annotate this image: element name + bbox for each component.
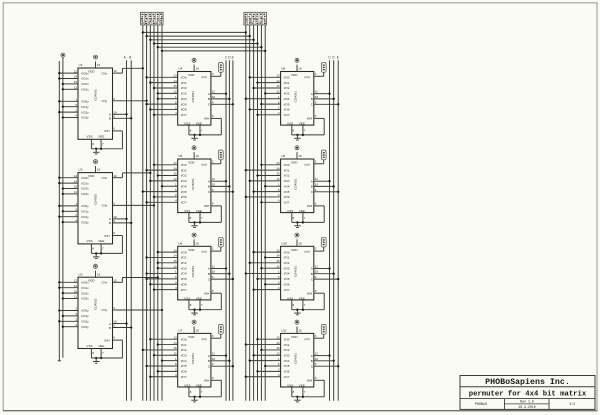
- wire — U4 pin 5 input: [145, 100, 177, 105]
- IC U9 (CD4051): [281, 154, 314, 213]
- svg-text:I/O5: I/O5: [284, 190, 290, 194]
- svg-text:6: 6: [315, 202, 317, 206]
- svg-text:CD4051: CD4051: [294, 91, 298, 103]
- svg-text:I/O7: I/O7: [284, 201, 290, 205]
- power symbol VDD U3: [93, 264, 97, 277]
- wire — U10 pin 7 VEE stub: [302, 300, 306, 311]
- svg-text:11: 11: [315, 177, 318, 181]
- svg-text:12: 12: [74, 174, 78, 178]
- svg-text:11: 11: [212, 177, 215, 181]
- connector CN-U7 output header: [218, 324, 223, 334]
- svg-text:PHOBoSapiens Inc.: PHOBoSapiens Inc.: [485, 377, 570, 387]
- svg-text:I/O1x: I/O1x: [81, 181, 89, 185]
- wire — U11 pin 2 input: [256, 368, 280, 373]
- wire — U2 pin 10 select A: [113, 215, 128, 220]
- svg-text:10: 10: [212, 270, 216, 274]
- wire — U1 pin 7 VEE stub: [100, 139, 104, 150]
- wire — U10 pin 9 select: [314, 275, 340, 280]
- svg-text:14: 14: [173, 341, 177, 345]
- IC U11 (CD4051): [281, 329, 314, 388]
- wire — U1 pin 12 input: [58, 69, 78, 74]
- wire — U9 pin 12 input: [249, 177, 281, 182]
- power symbol VDD U2: [93, 160, 97, 173]
- wire — U1 pin 10 select A: [113, 110, 128, 115]
- svg-text:I/O7: I/O7: [284, 375, 290, 379]
- svg-text:VEE: VEE: [98, 239, 104, 243]
- svg-text:I/O2y: I/O2y: [81, 215, 89, 219]
- svg-text:I/O0: I/O0: [284, 163, 290, 167]
- wire — select net E vertical (middle): [232, 60, 234, 400]
- wire — U8 pin 6 INH loop: [292, 114, 324, 135]
- svg-text:16: 16: [298, 241, 302, 245]
- svg-text:I/O6: I/O6: [284, 108, 290, 112]
- svg-text:I/O4: I/O4: [181, 97, 187, 101]
- svg-text:7: 7: [102, 142, 104, 146]
- svg-text:I/O0: I/O0: [284, 337, 290, 341]
- svg-text:3: 3: [113, 97, 115, 101]
- wire — U9 pin 9 select: [314, 188, 340, 193]
- svg-text:I/O0x: I/O0x: [81, 281, 89, 285]
- wire — U9 pin 7 VEE stub: [302, 213, 306, 224]
- title text — revision: [520, 400, 533, 404]
- svg-text:I/O3: I/O3: [284, 353, 290, 357]
- svg-text:CD4051: CD4051: [191, 353, 195, 365]
- power symbol VDD U9: [295, 146, 299, 159]
- wire — U2 pin 14 input: [58, 179, 78, 184]
- svg-text:9: 9: [212, 188, 214, 192]
- svg-text:3: 3: [315, 72, 317, 76]
- svg-text:I/O2y: I/O2y: [81, 320, 89, 324]
- svg-text:16: 16: [298, 67, 302, 71]
- wire — U6 pin 10 select: [211, 270, 231, 275]
- wire — U10 pin 3 output: [314, 247, 324, 251]
- title text — company: [485, 377, 570, 387]
- svg-text:12: 12: [276, 90, 280, 94]
- connector CN-U5 output header: [218, 150, 223, 160]
- wire — U8 pin 2 input: [249, 106, 281, 111]
- svg-text:I/O1: I/O1: [181, 343, 187, 347]
- svg-text:12: 12: [74, 279, 78, 283]
- svg-text:I/O4: I/O4: [181, 272, 187, 276]
- svg-text:I/O5: I/O5: [181, 190, 187, 194]
- svg-text:VSS: VSS: [184, 209, 190, 213]
- svg-text:9: 9: [315, 362, 317, 366]
- svg-text:VEE: VEE: [299, 209, 305, 213]
- wire — U2 pin 6 INH loop: [91, 231, 122, 253]
- wire — U8 pin 4 input: [256, 111, 280, 116]
- wire — U2 pin 15 input: [62, 185, 78, 190]
- svg-text:B: B: [109, 326, 111, 330]
- wire — U2 pin 3 output: [113, 202, 156, 207]
- svg-text:6: 6: [113, 231, 115, 235]
- svg-text:I/O4: I/O4: [284, 184, 290, 188]
- svg-text:3: 3: [212, 247, 214, 251]
- svg-text:8: 8: [293, 390, 295, 394]
- IC U7 (CD4051): [178, 329, 211, 388]
- svg-text:I/O0y: I/O0y: [81, 309, 89, 313]
- svg-text:U2: U2: [79, 168, 83, 172]
- svg-text:3: 3: [315, 159, 317, 163]
- svg-text:I/O7: I/O7: [181, 375, 187, 379]
- svg-text:1/1: 1/1: [569, 402, 575, 407]
- wire — U6 pin 6 INH loop: [189, 289, 221, 310]
- svg-text:16: 16: [97, 63, 101, 67]
- wire — U7 pin 12 input: [153, 351, 178, 356]
- svg-text:B: B: [109, 221, 111, 225]
- svg-text:7: 7: [201, 303, 203, 307]
- wire — U11 pin 11 select: [314, 352, 331, 357]
- IC U3 (CD4052): [78, 272, 113, 348]
- wire — U6 pin 13 input: [157, 248, 178, 253]
- svg-text:VDD: VDD: [88, 69, 95, 73]
- svg-text:I/O1x: I/O1x: [81, 77, 89, 81]
- svg-text:I/O7: I/O7: [181, 288, 187, 292]
- svg-text:(o/i): (o/i): [202, 162, 207, 166]
- svg-text:(o/i): (o/i): [202, 337, 207, 341]
- wire — U3 pin 7 VEE stub: [100, 349, 104, 360]
- svg-text:U7: U7: [178, 329, 182, 333]
- svg-text:9: 9: [113, 114, 115, 118]
- wire — U2 pin 11 input: [62, 190, 78, 195]
- svg-text:12: 12: [276, 264, 280, 268]
- svg-text:I/O5: I/O5: [181, 364, 187, 368]
- svg-text:VSS: VSS: [86, 135, 92, 139]
- svg-text:I/O7: I/O7: [181, 201, 187, 205]
- wire — U9 pin 13 input: [260, 161, 280, 166]
- svg-text:I/O3: I/O3: [181, 179, 187, 183]
- node C D E — select labels (right): [328, 56, 339, 60]
- svg-text:11: 11: [212, 265, 215, 269]
- power symbol VDD U1: [93, 55, 97, 68]
- wire — U2 pin 1 input: [58, 202, 78, 207]
- svg-text:16: 16: [195, 329, 199, 333]
- wire — U10 pin 11 select: [314, 265, 331, 270]
- svg-text:14: 14: [74, 179, 78, 183]
- svg-text:8: 8: [92, 351, 94, 355]
- svg-text:B: B: [129, 56, 131, 60]
- wire — U3 pin 2 input: [58, 318, 78, 323]
- wire — U3 pin 4 input: [62, 323, 78, 328]
- svg-text:I/O0: I/O0: [181, 76, 187, 80]
- svg-text:CD4051: CD4051: [294, 353, 298, 365]
- wire — left input bus verticals: [143, 25, 162, 401]
- wire — U5 pin 7 VEE stub: [199, 213, 203, 224]
- wire — U4 pin 7 VEE stub: [199, 125, 203, 136]
- wire — U7 pin 2 input: [157, 368, 178, 373]
- wire — U6 pin 15 input: [157, 259, 178, 264]
- svg-text:VDD: VDD: [291, 335, 298, 339]
- svg-text:15: 15: [276, 259, 280, 263]
- wire — U10 pin 5 input: [256, 275, 280, 280]
- ground below U6: [191, 309, 197, 315]
- svg-text:CD4051: CD4051: [294, 266, 298, 278]
- title text — date: [518, 405, 535, 409]
- svg-text:O/Iy: O/Iy: [102, 308, 108, 312]
- svg-text:U3: U3: [79, 272, 83, 276]
- svg-text:INH: INH: [204, 117, 209, 121]
- wire — U6 pin 5 input: [145, 275, 177, 280]
- svg-text:9: 9: [315, 100, 317, 104]
- wire — U5 pin 10 select: [211, 182, 231, 187]
- wire — U7 pin 5 input: [145, 362, 177, 367]
- wire — U10 pin 14 input: [264, 254, 281, 259]
- wire — U2 pin 12 input: [58, 174, 78, 179]
- svg-text:B: B: [311, 185, 313, 189]
- svg-text:14: 14: [276, 341, 280, 345]
- svg-text:B: B: [208, 272, 210, 276]
- svg-text:I/O4: I/O4: [284, 272, 290, 276]
- svg-text:I/O1y: I/O1y: [81, 210, 89, 214]
- ground below U2: [93, 252, 99, 258]
- wire — U7 pin 8 VSS stub: [189, 387, 192, 397]
- svg-text:I/O2x: I/O2x: [81, 187, 89, 191]
- wire — U6 pin 4 input: [153, 286, 178, 291]
- svg-text:13: 13: [113, 69, 117, 73]
- svg-text:VEE: VEE: [196, 209, 202, 213]
- svg-text:Rev 1.0: Rev 1.0: [520, 400, 533, 404]
- svg-text:15: 15: [276, 346, 280, 350]
- wire — U6 pin 1 input: [145, 270, 177, 275]
- wire — U5 pin 15 input: [157, 172, 178, 177]
- svg-text:I/O2: I/O2: [284, 348, 290, 352]
- wire — U5 pin 4 input: [145, 199, 177, 204]
- wire — U2 pin 5 input: [62, 208, 78, 213]
- wire — U2 pin 13 output: [113, 172, 152, 178]
- svg-text:CD4051: CD4051: [191, 178, 195, 190]
- wire — U6 pin 14 input: [145, 254, 177, 259]
- wire — right input bus verticals: [246, 25, 265, 401]
- power symbol VDD U11: [295, 320, 299, 333]
- wire — U7 pin 4 input: [149, 373, 178, 378]
- svg-text:8: 8: [190, 128, 192, 132]
- wire — U5 pin 3 output: [211, 159, 221, 163]
- wire — U1 pin 1 input: [58, 98, 78, 103]
- svg-text:CD4052: CD4052: [94, 194, 98, 206]
- svg-text:I/O0: I/O0: [284, 250, 290, 254]
- svg-text:O/Ix: O/Ix: [102, 281, 108, 285]
- svg-text:I/O5: I/O5: [284, 277, 290, 281]
- svg-text:U11: U11: [281, 329, 287, 333]
- svg-text:13: 13: [276, 248, 280, 252]
- wire — U8 pin 10 select: [314, 95, 335, 100]
- svg-text:I/O3: I/O3: [284, 266, 290, 270]
- svg-text:(o/i): (o/i): [304, 250, 309, 254]
- svg-text:I/O1: I/O1: [284, 168, 290, 172]
- connector CN-U11 output header: [321, 324, 326, 334]
- svg-text:I/O3y: I/O3y: [81, 325, 89, 329]
- wire — U4 pin 13 input: [145, 74, 177, 79]
- wire — U3 pin 1 input: [58, 307, 78, 312]
- svg-text:I/O2: I/O2: [181, 86, 187, 90]
- wire — U1 pin 3 output: [113, 97, 148, 102]
- svg-text:10: 10: [315, 182, 319, 186]
- svg-text:I/O5: I/O5: [284, 364, 290, 368]
- svg-text:9: 9: [113, 324, 115, 328]
- wire — select net B vertical: [130, 60, 132, 400]
- svg-text:14: 14: [173, 166, 177, 170]
- svg-text:permuter for 4x4 bit matrix: permuter for 4x4 bit matrix: [469, 391, 587, 399]
- svg-text:15: 15: [74, 289, 78, 293]
- svg-text:VSS: VSS: [287, 209, 293, 213]
- junction dots on crossover: [142, 31, 267, 52]
- svg-text:I/O0: I/O0: [181, 250, 187, 254]
- svg-text:I/O4: I/O4: [181, 184, 187, 188]
- svg-text:15: 15: [173, 346, 177, 350]
- svg-text:I/O1: I/O1: [284, 343, 290, 347]
- wire — U11 pin 4 input: [245, 373, 281, 378]
- wire — U4 pin 2 input: [149, 106, 178, 111]
- wire — U7 pin 11 select: [211, 352, 227, 357]
- svg-text:12: 12: [173, 90, 177, 94]
- wire — U4 pin 9 select: [211, 100, 234, 105]
- svg-text:14: 14: [276, 79, 280, 83]
- title text — drawing name: [469, 391, 587, 399]
- svg-text:I/O0: I/O0: [181, 337, 187, 341]
- wire — U9 pin 8 VSS stub: [292, 213, 295, 223]
- wire — U11 pin 5 input: [264, 362, 281, 367]
- svg-text:16-3-2010: 16-3-2010: [518, 405, 535, 409]
- wire — U4 pin 14 input: [149, 79, 178, 84]
- wire — U10 pin 2 input: [264, 280, 281, 285]
- wire — U4 pin 3 output: [211, 72, 221, 76]
- svg-text:O/Ix: O/Ix: [102, 176, 108, 180]
- wire — U9 pin 5 input: [252, 188, 280, 193]
- svg-text:B: B: [208, 185, 210, 189]
- ground below U9: [294, 221, 300, 227]
- svg-text:I/O0y: I/O0y: [81, 100, 89, 104]
- wire — U8 pin 12 input: [264, 90, 281, 95]
- wire — U3 pin 12 input: [58, 279, 78, 284]
- wire — U5 pin 6 INH loop: [189, 202, 221, 223]
- svg-text:I/O7: I/O7: [284, 113, 290, 117]
- svg-text:8: 8: [190, 303, 192, 307]
- svg-text:10: 10: [315, 357, 319, 361]
- svg-text:VDD: VDD: [188, 161, 195, 165]
- svg-text:8: 8: [293, 216, 295, 220]
- svg-text:I/O1: I/O1: [181, 256, 187, 260]
- wire — U11 pin 6 INH loop: [292, 376, 324, 397]
- wire — U3 pin 5 input: [62, 312, 78, 317]
- svg-text:INH: INH: [307, 379, 312, 383]
- wire — U8 pin 15 input: [252, 84, 280, 89]
- wire — U8 pin 5 input: [260, 100, 280, 105]
- svg-text:14: 14: [74, 284, 78, 288]
- svg-text:CD4052: CD4052: [94, 89, 98, 101]
- wire — U9 pin 10 select: [314, 182, 335, 187]
- svg-text:VEE: VEE: [196, 383, 202, 387]
- power symbol VDD U7: [192, 320, 196, 333]
- wire — select net C vertical (middle): [225, 60, 227, 400]
- wire — U7 pin 3 output: [211, 334, 221, 338]
- svg-text:11: 11: [212, 90, 215, 94]
- svg-text:I/O3: I/O3: [181, 92, 187, 96]
- svg-text:I/O6: I/O6: [181, 370, 187, 374]
- wire — U7 pin 13 input: [149, 335, 178, 340]
- svg-text:16: 16: [97, 272, 101, 276]
- svg-text:16: 16: [195, 241, 199, 245]
- svg-text:I/O1y: I/O1y: [81, 314, 89, 318]
- svg-text:12: 12: [276, 351, 280, 355]
- svg-text:14: 14: [276, 254, 280, 258]
- svg-text:CD4051: CD4051: [191, 266, 195, 278]
- svg-text:I/O2: I/O2: [284, 261, 290, 265]
- power symbol VDD U6: [192, 233, 196, 246]
- svg-text:11: 11: [74, 86, 77, 90]
- svg-text:12: 12: [173, 264, 177, 268]
- wire — U11 pin 13 input: [256, 335, 280, 340]
- svg-text:CD4051: CD4051: [294, 178, 298, 190]
- svg-text:13: 13: [173, 335, 177, 339]
- title text — project: [475, 403, 487, 407]
- svg-text:6: 6: [113, 336, 115, 340]
- svg-text:I/O3x: I/O3x: [81, 297, 89, 301]
- svg-text:U4: U4: [178, 67, 182, 71]
- ground below U8: [294, 134, 300, 140]
- wire — U3 pin 9 select B: [113, 324, 133, 329]
- wire — U11 pin 10 select: [314, 357, 335, 362]
- wire — U10 pin 8 VSS stub: [292, 300, 295, 310]
- wire — U11 pin 9 select: [314, 362, 340, 367]
- svg-text:11: 11: [315, 265, 318, 269]
- svg-text:O/Iy: O/Iy: [102, 99, 108, 103]
- svg-text:I/O6: I/O6: [284, 282, 290, 286]
- wire — U8 pin 11 select: [314, 90, 331, 95]
- wire — U4 pin 10 select: [211, 95, 231, 100]
- power symbol VDD U10: [295, 233, 299, 246]
- wire — U5 pin 11 select: [211, 177, 227, 182]
- svg-text:16: 16: [97, 168, 101, 172]
- svg-text:B: B: [311, 359, 313, 363]
- wire — U9 pin 11 select: [314, 177, 331, 182]
- svg-text:10: 10: [315, 270, 319, 274]
- svg-text:11: 11: [315, 90, 318, 94]
- svg-text:VEE: VEE: [98, 344, 104, 348]
- svg-text:VDD: VDD: [291, 161, 298, 165]
- svg-text:VEE: VEE: [98, 135, 104, 139]
- svg-text:I/O6: I/O6: [284, 370, 290, 374]
- wire — U11 pin 1 input: [249, 357, 281, 362]
- svg-text:15: 15: [173, 84, 177, 88]
- svg-text:10: 10: [212, 182, 216, 186]
- wire — U9 pin 15 input: [256, 172, 280, 177]
- IC U5 (CD4051): [178, 154, 211, 213]
- svg-text:I/O0: I/O0: [181, 163, 187, 167]
- connector CN-U9 output header: [321, 150, 326, 160]
- wire — U6 pin 7 VEE stub: [199, 300, 203, 311]
- svg-text:VDD: VDD: [188, 248, 195, 252]
- svg-text:INH: INH: [104, 129, 109, 133]
- wire — U3 pin 11 input: [62, 295, 78, 300]
- wire — U3 pin 13 output: [113, 276, 159, 282]
- wire — U3 pin 15 input: [62, 289, 78, 294]
- svg-text:I/O3: I/O3: [284, 92, 290, 96]
- svg-text:I/O6: I/O6: [181, 108, 187, 112]
- wire — U6 pin 11 select: [211, 265, 227, 270]
- wire — U4 pin 1 input: [157, 95, 178, 100]
- svg-text:9: 9: [315, 188, 317, 192]
- svg-text:I/O5: I/O5: [181, 277, 187, 281]
- wire — U4 pin 6 INH loop: [189, 114, 221, 135]
- svg-text:13: 13: [173, 161, 177, 165]
- wire — U10 pin 10 select: [314, 270, 335, 275]
- connector J2: [244, 12, 267, 25]
- connector CN-U8 output header: [321, 63, 326, 73]
- wire — U8 pin 13 input: [249, 74, 281, 79]
- svg-text:11: 11: [74, 295, 77, 299]
- svg-text:9: 9: [315, 275, 317, 279]
- svg-text:INH: INH: [307, 117, 312, 121]
- wire — U10 pin 13 input: [252, 248, 280, 253]
